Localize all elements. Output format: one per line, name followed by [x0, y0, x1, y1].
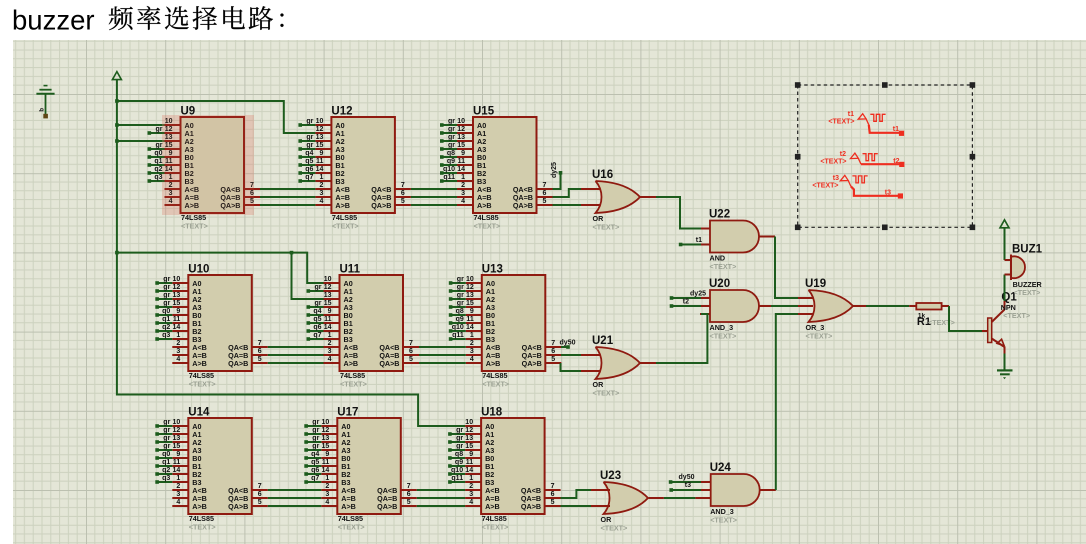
- svg-text:q6: q6: [313, 324, 321, 331]
- svg-text:q9: q9: [456, 316, 464, 323]
- svg-text:U20: U20: [709, 278, 730, 290]
- svg-text:gr: gr: [163, 419, 170, 426]
- svg-text:<TEXT>: <TEXT>: [812, 183, 838, 190]
- svg-text:1: 1: [325, 475, 329, 482]
- svg-text:t2: t2: [893, 158, 899, 165]
- svg-text:4: 4: [469, 499, 473, 506]
- svg-text:12: 12: [465, 427, 473, 434]
- svg-text:13: 13: [316, 134, 324, 141]
- svg-text:<TEXT>: <TEXT>: [806, 331, 833, 340]
- svg-text:U18: U18: [481, 407, 503, 419]
- svg-text:buzzer: buzzer: [12, 5, 95, 36]
- comparator U12 74LS85: [298, 106, 411, 231]
- svg-text:gr: gr: [312, 427, 319, 434]
- svg-text:9: 9: [176, 451, 180, 458]
- wire U13 QA>B to U21: [545, 362, 560, 364]
- svg-text:q4: q4: [311, 451, 319, 458]
- OR gate U21: [592, 335, 640, 397]
- svg-text:1: 1: [461, 174, 465, 181]
- resistor R1 1k: [909, 303, 955, 328]
- comparator U18 74LS85: [448, 407, 560, 532]
- cascade wires U12 to U15: [411, 188, 457, 190]
- wire U22 output to U19 top input: [775, 237, 798, 299]
- svg-text:1: 1: [176, 475, 180, 482]
- svg-text:gr: gr: [163, 443, 170, 450]
- svg-text:A>B: A>B: [344, 359, 359, 368]
- svg-text:U21: U21: [592, 335, 614, 347]
- U16 output pin: [640, 196, 656, 198]
- svg-text:9: 9: [328, 308, 332, 315]
- comparator U10 74LS85: [155, 264, 267, 389]
- svg-text:11: 11: [173, 316, 181, 323]
- svg-text:q0: q0: [162, 451, 170, 458]
- svg-text:10: 10: [466, 276, 474, 283]
- svg-text:3: 3: [328, 348, 332, 355]
- svg-text:q7: q7: [313, 332, 321, 339]
- svg-text:3: 3: [325, 491, 329, 498]
- svg-text:5: 5: [401, 198, 405, 205]
- svg-text:t3: t3: [885, 190, 891, 197]
- svg-text:gr: gr: [315, 300, 322, 307]
- svg-text:QA>B: QA>B: [513, 201, 533, 210]
- svg-text:U22: U22: [709, 209, 730, 221]
- svg-text:U17: U17: [337, 407, 358, 419]
- svg-text:13: 13: [173, 435, 181, 442]
- svg-text:14: 14: [316, 166, 324, 173]
- svg-text:12: 12: [173, 427, 181, 434]
- svg-text:7: 7: [401, 182, 405, 189]
- svg-text:15: 15: [322, 443, 330, 450]
- svg-text:q1: q1: [154, 158, 162, 165]
- svg-text:gr: gr: [456, 435, 463, 442]
- svg-text:6: 6: [401, 190, 405, 197]
- svg-text:10: 10: [324, 276, 332, 283]
- svg-text:QA>B: QA>B: [377, 502, 397, 511]
- svg-text:gr: gr: [312, 435, 319, 442]
- svg-text:q8: q8: [455, 451, 463, 458]
- svg-text:9: 9: [176, 308, 180, 315]
- U22 input/output pins: [700, 228, 710, 230]
- svg-text:12: 12: [322, 427, 330, 434]
- svg-text:<TEXT>: <TEXT>: [593, 388, 620, 397]
- svg-text:13: 13: [466, 292, 474, 299]
- U23 output pin: [649, 497, 664, 499]
- svg-text:t3: t3: [685, 482, 691, 489]
- svg-text:11: 11: [173, 459, 181, 466]
- svg-text:<TEXT>: <TEXT>: [593, 222, 620, 231]
- wire U18 QA=B to U23: [545, 497, 561, 499]
- svg-text:2: 2: [469, 483, 473, 490]
- svg-text:gr: gr: [448, 126, 455, 133]
- svg-text:gr: gr: [156, 126, 163, 133]
- svg-text:11: 11: [324, 316, 332, 323]
- svg-text:QA>B: QA>B: [228, 502, 248, 511]
- wire Q1 collector to buzzer: [1004, 275, 1006, 302]
- svg-text:<TEXT>: <TEXT>: [332, 221, 359, 230]
- svg-text:3: 3: [470, 348, 474, 355]
- svg-text:gr: gr: [163, 276, 170, 283]
- svg-text:gr: gr: [163, 292, 170, 299]
- svg-text:6: 6: [407, 491, 411, 498]
- OR_3 gate U19: [805, 278, 853, 340]
- svg-text:<TEXT>: <TEXT>: [189, 522, 216, 531]
- svg-text:4: 4: [470, 356, 474, 363]
- ground symbol: [997, 370, 1013, 379]
- svg-text:U15: U15: [473, 106, 495, 118]
- svg-text:<TEXT>: <TEXT>: [340, 379, 367, 388]
- svg-text:14: 14: [173, 467, 181, 474]
- cascade wires U10 to U11: [268, 346, 324, 348]
- buzzer BUZ1: [1005, 244, 1043, 298]
- svg-text:q7: q7: [305, 174, 313, 181]
- svg-text:11: 11: [458, 158, 466, 165]
- svg-text:gr: gr: [163, 427, 170, 434]
- svg-text:13: 13: [457, 134, 465, 141]
- svg-text:A>B: A>B: [341, 502, 356, 511]
- svg-text:gr: gr: [457, 276, 464, 283]
- svg-text:2: 2: [325, 483, 329, 490]
- svg-text:<TEXT>: <TEXT>: [338, 522, 365, 531]
- svg-text:gr: gr: [448, 118, 455, 125]
- svg-text:gr: gr: [448, 134, 455, 141]
- svg-text:gr: gr: [456, 427, 463, 434]
- svg-text:U10: U10: [188, 264, 209, 276]
- svg-text:<TEXT>: <TEXT>: [928, 318, 955, 327]
- dashed selection box: [795, 82, 975, 230]
- svg-text:5: 5: [258, 499, 262, 506]
- svg-text:9: 9: [325, 451, 329, 458]
- U24 input/output pins: [700, 481, 711, 483]
- svg-text:gr: gr: [163, 300, 170, 307]
- svg-text:U13: U13: [482, 264, 503, 276]
- wire U21 output to U20 bottom input: [656, 314, 707, 363]
- svg-text:q0: q0: [154, 150, 162, 157]
- svg-text:A>B: A>B: [485, 502, 500, 511]
- cascade wires U14 to U17: [268, 489, 322, 491]
- svg-text:dy25: dy25: [551, 162, 558, 178]
- wire R1 to Q1 base: [949, 306, 982, 331]
- svg-text:14: 14: [322, 467, 330, 474]
- ground/origin marker top-left: [36, 86, 54, 119]
- U16 input pins: [580, 188, 600, 190]
- svg-text:q10: q10: [443, 166, 455, 173]
- svg-text:q11: q11: [443, 174, 455, 181]
- svg-text:gr: gr: [163, 435, 170, 442]
- pulse generator t3: [812, 175, 903, 199]
- svg-text:A>B: A>B: [486, 359, 501, 368]
- svg-text:q3: q3: [162, 332, 170, 339]
- svg-text:q3: q3: [154, 174, 162, 181]
- svg-text:U24: U24: [710, 462, 732, 474]
- svg-text:gr: gr: [457, 292, 464, 299]
- AND gate U22: [709, 209, 759, 271]
- svg-text:2: 2: [176, 340, 180, 347]
- net t1 into U22: [679, 243, 683, 247]
- svg-text:11: 11: [322, 459, 330, 466]
- OR gate U23: [600, 470, 648, 532]
- svg-text:6: 6: [258, 491, 262, 498]
- svg-text:gr: gr: [312, 419, 319, 426]
- svg-text:gr: gr: [306, 142, 313, 149]
- svg-text:gr: gr: [312, 443, 319, 450]
- svg-text:1: 1: [319, 174, 323, 181]
- svg-text:U12: U12: [331, 106, 352, 118]
- svg-text:t2: t2: [840, 151, 846, 158]
- comparator U11 74LS85: [307, 264, 420, 389]
- svg-text:15: 15: [173, 443, 181, 450]
- svg-text:q0: q0: [162, 308, 170, 315]
- svg-text:13: 13: [322, 435, 330, 442]
- wire U15 QA>B to U16: [537, 204, 553, 206]
- cascade wires U11 to U13: [419, 346, 466, 348]
- wire rail to U11 A0 and A2: [117, 253, 324, 283]
- svg-text:<TEXT>: <TEXT>: [710, 515, 737, 524]
- svg-text:2: 2: [328, 340, 332, 347]
- svg-text:11: 11: [466, 459, 474, 466]
- svg-text:14: 14: [457, 166, 465, 173]
- wire U13 QA<B to net dy50: [545, 346, 561, 348]
- svg-text:9: 9: [461, 150, 465, 157]
- svg-text:q8: q8: [447, 150, 455, 157]
- svg-text:5: 5: [409, 356, 413, 363]
- svg-text:13: 13: [465, 435, 473, 442]
- svg-text:10: 10: [173, 276, 181, 283]
- svg-text:QA>B: QA>B: [371, 201, 391, 210]
- svg-text:1: 1: [469, 475, 473, 482]
- comparator U9 74LS85: [148, 106, 261, 231]
- svg-text:2: 2: [470, 340, 474, 347]
- cascade wires U9 to U12: [260, 188, 315, 190]
- svg-text:QA>B: QA>B: [228, 359, 248, 368]
- svg-text:4: 4: [328, 356, 332, 363]
- svg-text:15: 15: [324, 300, 332, 307]
- svg-text:1: 1: [470, 332, 474, 339]
- title text: buzzer frequency select circuit: [12, 5, 284, 36]
- svg-text:6: 6: [409, 348, 413, 355]
- net dy50 into U24: [669, 480, 673, 484]
- svg-text:<TEXT>: <TEXT>: [828, 119, 854, 126]
- svg-text:<TEXT>: <TEXT>: [474, 221, 501, 230]
- pulse generator t1: [828, 111, 904, 136]
- svg-text:t1: t1: [893, 126, 899, 133]
- svg-text:12: 12: [173, 284, 181, 291]
- svg-text:gr: gr: [456, 443, 463, 450]
- svg-text:q9: q9: [455, 459, 463, 466]
- svg-text:gr: gr: [306, 118, 313, 125]
- svg-text:2: 2: [461, 182, 465, 189]
- svg-text:dy50: dy50: [679, 474, 695, 481]
- net t3 into U24: [669, 488, 673, 492]
- wire power to buzzer: [1004, 228, 1006, 260]
- svg-text:3: 3: [176, 491, 180, 498]
- svg-text:q5: q5: [311, 459, 319, 466]
- AND_3 gate U20: [709, 278, 759, 340]
- svg-text:gr: gr: [163, 284, 170, 291]
- svg-text:13: 13: [324, 292, 332, 299]
- svg-text:gr: gr: [457, 300, 464, 307]
- svg-text:4: 4: [461, 198, 465, 205]
- svg-text:12: 12: [457, 126, 465, 133]
- svg-text:11: 11: [466, 316, 474, 323]
- svg-text:12: 12: [466, 284, 474, 291]
- svg-text:<TEXT>: <TEXT>: [820, 159, 846, 166]
- svg-text:1: 1: [176, 332, 180, 339]
- svg-text:<TEXT>: <TEXT>: [482, 379, 509, 388]
- svg-text:t1: t1: [696, 237, 702, 244]
- wire rail to U9 A0: [117, 124, 165, 126]
- pulse generator t2: [820, 151, 904, 167]
- svg-text:U11: U11: [340, 264, 361, 276]
- svg-text:12: 12: [316, 126, 324, 133]
- wire rail to U9 A2: [117, 140, 165, 142]
- power arrow at buzzer: [1000, 220, 1009, 228]
- svg-text:3: 3: [176, 348, 180, 355]
- wire rail to U12 A1: [117, 101, 316, 133]
- svg-text:2: 2: [176, 483, 180, 490]
- svg-text:q6: q6: [311, 467, 319, 474]
- junction dots on rail: [115, 99, 119, 103]
- svg-text:15: 15: [316, 142, 324, 149]
- svg-text:4: 4: [319, 198, 323, 205]
- svg-text:q5: q5: [313, 316, 321, 323]
- svg-text:<TEXT>: <TEXT>: [601, 523, 628, 532]
- stub U18 QA<B: [545, 489, 561, 491]
- svg-text:q3: q3: [162, 475, 170, 482]
- svg-text:q2: q2: [162, 324, 170, 331]
- wire U24 output up to U19 bottom input: [776, 314, 798, 490]
- svg-text:7: 7: [409, 340, 413, 347]
- svg-text:QA>B: QA>B: [521, 502, 541, 511]
- svg-text:U23: U23: [600, 470, 621, 482]
- svg-text:3: 3: [469, 491, 473, 498]
- svg-text:q11: q11: [451, 475, 463, 482]
- svg-text:b: b: [40, 108, 46, 112]
- AND_3 gate U24: [710, 462, 760, 524]
- svg-text:q4: q4: [313, 308, 321, 315]
- svg-text:<TEXT>: <TEXT>: [710, 262, 737, 271]
- svg-text:q8: q8: [456, 308, 464, 315]
- power arrow left: [112, 72, 121, 80]
- svg-text:5: 5: [407, 499, 411, 506]
- svg-text:q6: q6: [305, 166, 313, 173]
- svg-text:gr: gr: [315, 284, 322, 291]
- OR gate U16: [592, 169, 640, 231]
- svg-text:9: 9: [469, 451, 473, 458]
- svg-text:14: 14: [465, 467, 473, 474]
- svg-text:12: 12: [324, 284, 332, 291]
- wire U16 output to U22: [656, 197, 701, 229]
- svg-text:<TEXT>: <TEXT>: [1014, 288, 1041, 297]
- power rail vertical wire: [117, 80, 465, 426]
- svg-text:14: 14: [324, 324, 332, 331]
- svg-text:BUZ1: BUZ1: [1012, 244, 1043, 256]
- svg-text:<TEXT>: <TEXT>: [181, 221, 208, 230]
- cascade wires U17 to U18: [417, 489, 465, 491]
- svg-text:q1: q1: [162, 459, 170, 466]
- wire Q1 emitter to ground: [1004, 354, 1006, 371]
- U19 input/output pins: [797, 297, 813, 299]
- comparator U17 74LS85: [304, 407, 417, 532]
- svg-text:A>B: A>B: [192, 502, 207, 511]
- svg-text:QA>B: QA>B: [522, 359, 542, 368]
- svg-text:15: 15: [457, 142, 465, 149]
- selection highlight on U9 (tint overlay): [162, 115, 254, 215]
- net t2 into U20: [670, 304, 674, 308]
- svg-text:3: 3: [461, 190, 465, 197]
- svg-text:7: 7: [258, 340, 262, 347]
- svg-text:10: 10: [173, 419, 181, 426]
- svg-text:q7: q7: [311, 475, 319, 482]
- svg-text:q4: q4: [305, 150, 313, 157]
- svg-text:4: 4: [176, 356, 180, 363]
- U23 input pins: [590, 489, 610, 491]
- svg-text:U14: U14: [188, 407, 210, 419]
- svg-text:dy50: dy50: [560, 340, 576, 347]
- svg-text:q10: q10: [451, 467, 463, 474]
- svg-text:U16: U16: [592, 169, 613, 181]
- svg-text:10: 10: [316, 118, 324, 125]
- selection highlight on U9 (under): [162, 115, 254, 215]
- svg-text:q10: q10: [452, 324, 464, 331]
- svg-text:6: 6: [258, 348, 262, 355]
- wire U15 QA<B to net dy25: [537, 188, 553, 190]
- svg-text:10: 10: [322, 419, 330, 426]
- svg-text:10: 10: [465, 419, 473, 426]
- svg-text:3: 3: [319, 190, 323, 197]
- svg-text:7: 7: [407, 483, 411, 490]
- svg-text:11: 11: [316, 158, 324, 165]
- svg-text:gr: gr: [306, 134, 313, 141]
- svg-text:t1: t1: [848, 111, 854, 118]
- comparator U14 74LS85: [155, 407, 267, 532]
- svg-text:A>B: A>B: [335, 201, 350, 210]
- svg-text:10: 10: [457, 118, 465, 125]
- svg-text:5: 5: [258, 356, 262, 363]
- svg-text:t2: t2: [683, 299, 689, 306]
- svg-text:1: 1: [328, 332, 332, 339]
- svg-text:4: 4: [325, 499, 329, 506]
- U21 input pins: [580, 354, 600, 356]
- svg-text:q9: q9: [447, 158, 455, 165]
- svg-text:dy25: dy25: [690, 291, 706, 298]
- svg-text:<TEXT>: <TEXT>: [189, 379, 216, 388]
- svg-text:t3: t3: [833, 175, 839, 182]
- svg-text:q11: q11: [452, 332, 464, 339]
- svg-text:A>B: A>B: [192, 359, 207, 368]
- svg-text:15: 15: [465, 443, 473, 450]
- svg-text:QA>B: QA>B: [379, 359, 399, 368]
- svg-text:q2: q2: [154, 166, 162, 173]
- svg-text:2: 2: [319, 182, 323, 189]
- wire U19 output to R1: [866, 305, 909, 307]
- comparator U13 74LS85: [449, 264, 562, 389]
- svg-text:q1: q1: [162, 316, 170, 323]
- U21 output pin: [640, 362, 656, 364]
- transistor Q1 NPN: [982, 292, 1030, 354]
- svg-text:gr: gr: [156, 142, 163, 149]
- svg-text:15: 15: [173, 300, 181, 307]
- svg-text:q5: q5: [305, 158, 313, 165]
- U20 input/output pins: [700, 297, 710, 299]
- svg-text:gr: gr: [448, 142, 455, 149]
- svg-text:gr: gr: [457, 284, 464, 291]
- wire U13 QA=B to U21: [545, 354, 561, 356]
- svg-text:<TEXT>: <TEXT>: [1003, 311, 1030, 320]
- wire U15 QA=B to U16: [537, 196, 553, 198]
- svg-text:<TEXT>: <TEXT>: [482, 522, 509, 531]
- svg-text:14: 14: [466, 324, 474, 331]
- svg-text:q2: q2: [162, 467, 170, 474]
